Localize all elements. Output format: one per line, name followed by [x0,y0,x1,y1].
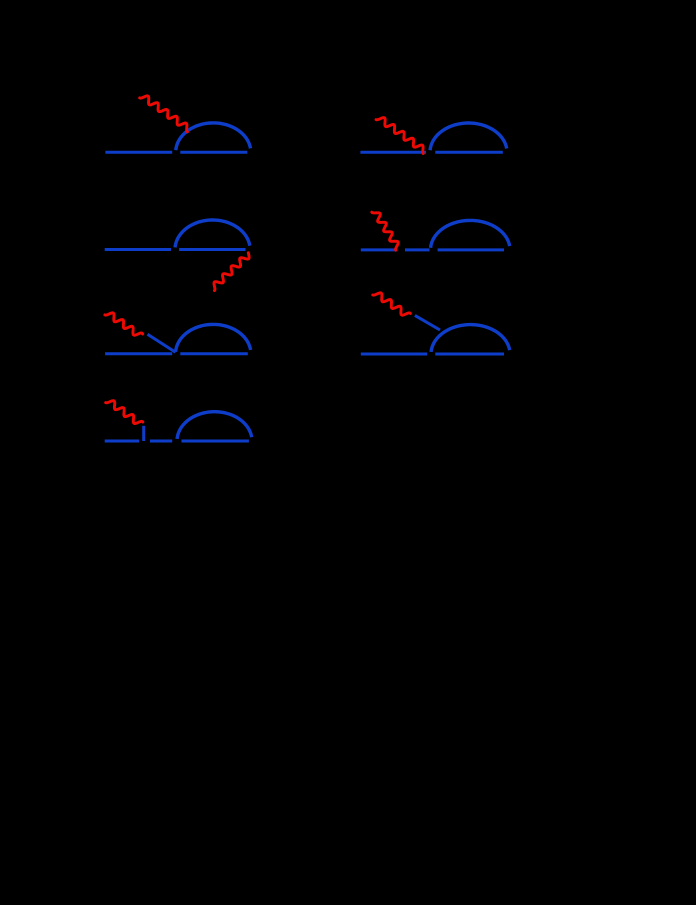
diagram 4: self-energy loop with photon attached to line left of loop [361,212,510,250]
wire: short vertical stub from photon down to line [142,426,145,441]
photon wavy line onto loop [140,96,188,132]
wire: straight stub from photon end to vertex [148,334,176,352]
wire: fermion line left segment [105,248,171,251]
photon wavy line into stub [105,313,143,335]
wire: fermion line left segment [105,151,172,154]
diagram 5: self-energy loop with photon + straight stub into left vertex [105,313,251,354]
wire: fermion line right segment [435,353,504,356]
wire: fermion line middle segment [405,248,430,251]
wire: straight stub from photon end toward loop [415,315,440,330]
wire: fermion line left segment [105,352,172,355]
photon wavy line onto vertex [376,118,423,154]
diagram 2: self-energy loop with photon attached at left vertex [360,118,506,154]
loop arc [430,123,507,150]
loop arc [175,220,250,247]
diagram 7: self-energy loop with photon + short vertical stub onto line [105,401,252,441]
wire: fermion line left segment [360,151,426,154]
diagram 3: self-energy loop with photon emitted downward from right end [105,220,250,291]
loop arc [431,220,510,247]
photon steep wavy line onto line [372,212,399,250]
loop arc [176,123,251,150]
wire: fermion line left segment [105,440,140,443]
wire: fermion line left segment [361,353,427,356]
diagram 6: self-energy loop with photon + straight stub onto loop [361,293,510,354]
wire: fermion line right segment [180,151,247,154]
photon wavy line into stub [373,293,411,315]
photon wavy line into vertical stub [106,401,143,424]
wire: fermion line right segment [182,440,249,443]
photon wavy line going down-left from right vertex [214,253,249,291]
loop arc [431,325,510,352]
wire: fermion line middle segment [150,440,172,443]
wire: fermion line right segment [179,248,245,251]
wire: fermion line left segment [361,248,396,251]
wire: fermion line right segment [438,248,504,251]
loop arc [177,412,252,439]
loop arc [176,324,251,351]
diagram 1: self-energy loop with photon attached to the loop arc [105,96,250,152]
wire: fermion line right segment [180,352,248,355]
wire: fermion line right segment [435,151,503,154]
